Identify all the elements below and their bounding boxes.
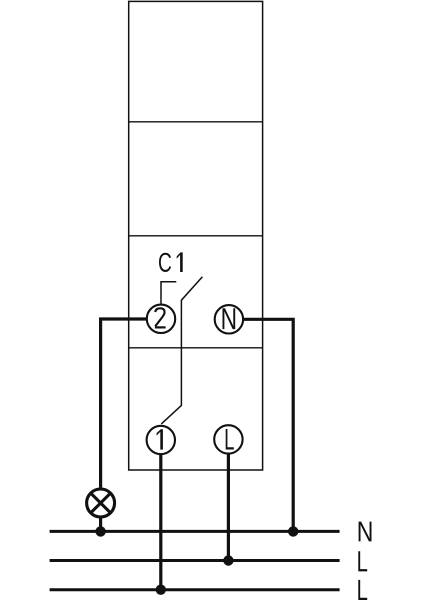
junction: terminal L on L bus 1 bbox=[223, 555, 233, 565]
junction: lamp on N bus bbox=[95, 526, 105, 536]
wire: terminal N to right drop bbox=[243, 319, 293, 531]
junction: N drop on N bus bbox=[288, 526, 298, 536]
wire: terminal 1 down to L bus bbox=[159, 454, 162, 590]
terminal L letter bbox=[226, 429, 234, 450]
terminal N bbox=[215, 305, 243, 333]
terminal 2 bbox=[147, 305, 175, 333]
net label L2 bbox=[358, 580, 367, 600]
label C1 digit 1 bbox=[177, 252, 183, 272]
terminal L bbox=[214, 425, 242, 453]
wire: lamp to N bus bbox=[99, 517, 102, 531]
terminal 1 bbox=[147, 426, 175, 454]
L bus line 1 bbox=[50, 559, 340, 562]
L bus line 2 bbox=[50, 588, 340, 591]
device section divider 2 bbox=[129, 235, 263, 237]
terminal 2 digit bbox=[155, 308, 164, 326]
terminal 1 digit bbox=[157, 429, 163, 449]
lamp E1 bbox=[87, 489, 115, 517]
terminal N letter bbox=[223, 308, 236, 329]
wire: terminal 2 to lamp bbox=[101, 319, 148, 488]
junction: terminal 1 on L bus 2 bbox=[156, 585, 166, 595]
net label L1 bbox=[358, 551, 367, 571]
wire: terminal L down to L bus bbox=[227, 453, 230, 560]
device section divider 1 bbox=[129, 121, 263, 123]
contact C1 moving lever bbox=[161, 277, 202, 424]
device outline bbox=[129, 1, 263, 470]
net label N bbox=[359, 522, 372, 542]
contact C1 fixed contact hook bbox=[161, 282, 176, 304]
label C1 letter C bbox=[159, 253, 171, 272]
device section divider 3 bbox=[129, 347, 263, 349]
N bus line bbox=[50, 530, 340, 533]
